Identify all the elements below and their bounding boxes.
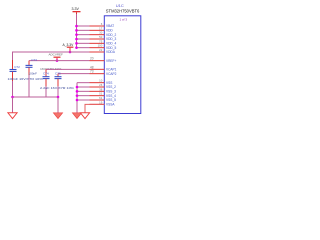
svg-text:73: 73 bbox=[90, 70, 94, 74]
svg-text:17: 17 bbox=[99, 26, 103, 30]
pin VSS bbox=[90, 79, 113, 85]
pin VSS_3 bbox=[90, 87, 117, 93]
pin VBAT bbox=[90, 22, 115, 28]
junction ADCVREF on VREF wire bbox=[56, 59, 59, 62]
wire VDD_2 feed bbox=[77, 34, 90, 36]
svg-text:C74: C74 bbox=[43, 72, 49, 76]
pin VDDA bbox=[90, 48, 116, 54]
wire VSS_3 feed bbox=[77, 90, 90, 92]
wire 3.3V vertical rail bbox=[76, 14, 78, 48]
ground symbol VSS (filled) bbox=[72, 113, 81, 119]
pin VDD_5 bbox=[90, 44, 117, 50]
svg-text:3.3V: 3.3V bbox=[72, 7, 80, 11]
svg-text:VDDA: VDDA bbox=[106, 50, 116, 54]
op-amp U1C chip body STM32H750VBT6 bbox=[104, 16, 141, 114]
svg-text:VSSA: VSSA bbox=[106, 103, 115, 107]
pin VSSA bbox=[90, 100, 116, 106]
pin VDD bbox=[90, 26, 114, 32]
svg-text:C73: C73 bbox=[31, 58, 37, 62]
pin VCAP1 bbox=[90, 65, 117, 71]
junction A_3.3V on VDDA wire bbox=[69, 51, 72, 54]
svg-text:100nF 16V/X7R 10%: 100nF 16V/X7R 10% bbox=[8, 77, 43, 81]
pin VDD_4 bbox=[90, 39, 117, 45]
wire VDD feed bbox=[77, 29, 90, 31]
wire VDD_5 feed bbox=[77, 47, 90, 49]
wire VSS_2 feed bbox=[77, 86, 90, 88]
wire VCAP1 bbox=[46, 68, 90, 70]
wire VSS rail bbox=[76, 83, 78, 113]
wire VCAP2 bbox=[58, 73, 90, 75]
wire C74 to gnd bbox=[45, 86, 47, 97]
wire VBAT feed bbox=[77, 25, 90, 27]
svg-text:VREF+: VREF+ bbox=[106, 59, 117, 63]
svg-text:ADCVREF: ADCVREF bbox=[49, 52, 64, 56]
ground symbol left (open) bbox=[8, 113, 17, 119]
pin VDD_2 bbox=[90, 31, 117, 37]
junction gnd at C75 bbox=[57, 96, 60, 99]
junction dots on 3.3V rail bbox=[75, 25, 78, 49]
ground symbol mid (filled) bbox=[53, 113, 62, 119]
svg-text:C75: C75 bbox=[55, 72, 61, 76]
net label ADCVREF power flag bbox=[49, 52, 64, 60]
wire VDD_3 feed bbox=[77, 38, 90, 40]
power symbol A_3.3V bbox=[63, 43, 75, 52]
svg-text:75: 75 bbox=[99, 39, 103, 43]
wire gnd drop left bbox=[12, 97, 14, 113]
wire C75 to gnd bbox=[57, 86, 59, 97]
wire VDD_4 feed bbox=[77, 42, 90, 44]
svg-text:19: 19 bbox=[99, 100, 103, 104]
svg-text:22: 22 bbox=[99, 48, 103, 52]
wire gnd drop mid bbox=[57, 97, 59, 113]
wire ground bus left bbox=[13, 96, 59, 98]
pin VSS_2 bbox=[90, 83, 117, 89]
svg-text:1 of 3: 1 of 3 bbox=[120, 17, 128, 21]
pin VCAP2 bbox=[90, 70, 117, 76]
pin VSS_4 bbox=[90, 92, 117, 98]
wire C72 to gnd rail bbox=[12, 81, 14, 97]
svg-text:VCAP1: VCAP1 bbox=[106, 68, 117, 72]
svg-text:2.2uF 16V/X7R 10%: 2.2uF 16V/X7R 10% bbox=[40, 86, 74, 90]
svg-text:38: 38 bbox=[99, 87, 103, 91]
wire VSS feed bbox=[77, 82, 90, 84]
svg-text:16V/X7R 10%: 16V/X7R 10% bbox=[40, 67, 62, 71]
svg-text:VCAP2: VCAP2 bbox=[106, 72, 117, 76]
ground symbol VSSA (open) bbox=[80, 113, 89, 119]
capacitor C75 bbox=[40, 72, 74, 90]
svg-text:A_3.3V: A_3.3V bbox=[63, 43, 75, 47]
pin VDD_3 bbox=[90, 35, 117, 41]
svg-text:VDD_4: VDD_4 bbox=[106, 42, 117, 46]
wire VDDA rail bbox=[13, 52, 90, 60]
svg-text:STM32H750VBT6: STM32H750VBT6 bbox=[106, 9, 140, 14]
wire VREF+ rail bbox=[29, 60, 90, 62]
svg-text:100nF: 100nF bbox=[29, 71, 38, 75]
junction dots on VSS rail bbox=[76, 86, 79, 102]
capacitor C74 bbox=[43, 69, 50, 86]
junction gnd at C72 bbox=[11, 96, 14, 99]
svg-text:C72: C72 bbox=[14, 65, 20, 69]
wire VSS_5 feed bbox=[77, 99, 90, 101]
svg-text:20: 20 bbox=[90, 57, 94, 61]
capacitor C72 bbox=[8, 60, 43, 81]
wire VSSA drop bbox=[85, 104, 104, 112]
wire VSS_4 feed bbox=[77, 95, 90, 97]
pin VSS_5 bbox=[90, 96, 117, 102]
wire C73 to gnd rail bbox=[28, 75, 30, 97]
power symbol 3.3V bbox=[72, 7, 81, 14]
capacitor C73 bbox=[26, 58, 62, 75]
svg-text:48: 48 bbox=[90, 65, 94, 69]
svg-text:VSS_3: VSS_3 bbox=[106, 90, 116, 94]
svg-text:U1C: U1C bbox=[116, 3, 124, 8]
svg-text:VDD: VDD bbox=[106, 29, 113, 33]
pin VREF+ bbox=[90, 57, 117, 63]
